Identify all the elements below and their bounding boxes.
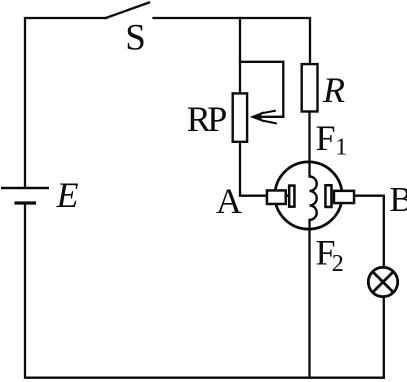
left plate <box>289 186 294 207</box>
switch S blade <box>106 3 149 19</box>
potentiometer RP box <box>233 93 247 141</box>
wire: battery bottom / bottom wire <box>25 204 384 378</box>
battery E short plate <box>14 201 36 204</box>
wire: left vertical + top wire to switch <box>25 18 106 187</box>
svg-text:B: B <box>390 180 407 219</box>
right plate <box>325 185 331 207</box>
svg-text:2: 2 <box>332 251 344 277</box>
potentiometer RP wiper arrowhead <box>250 111 265 122</box>
wire: coil bottom down to bottom wire (F2 lead) <box>308 220 310 378</box>
lamp (circle with X) <box>368 267 397 296</box>
svg-text:F: F <box>316 118 336 158</box>
wire: left box to left plate (inside gap) <box>287 195 288 197</box>
potentiometer RP wiper barbs <box>261 111 276 114</box>
svg-text:S: S <box>125 18 146 59</box>
wire: right box to node B corner and down to lamp <box>355 196 384 267</box>
battery E long plate <box>1 187 49 190</box>
wire: junction branch down to RP top <box>239 18 241 92</box>
wire: RP bottom down to node A corner <box>240 143 266 196</box>
wire: RP wiper over-wire <box>240 62 283 117</box>
right terminal box <box>334 191 354 203</box>
svg-text:R: R <box>322 70 345 110</box>
resistor R box <box>302 64 318 111</box>
svg-text:A: A <box>216 181 242 221</box>
svg-text:1: 1 <box>335 135 347 161</box>
coil (three right-bulging arcs) on vertical wire <box>310 177 317 220</box>
wire: top right from switch to R branch corner <box>154 18 311 63</box>
wire: lamp bottom to bottom wire <box>383 298 385 378</box>
svg-text:RP: RP <box>187 99 227 139</box>
wire: R bottom down to coil (F1 lead) <box>308 113 310 177</box>
left terminal box <box>267 190 286 204</box>
svg-text:E: E <box>56 175 79 215</box>
galvanometer circle body <box>275 162 342 229</box>
